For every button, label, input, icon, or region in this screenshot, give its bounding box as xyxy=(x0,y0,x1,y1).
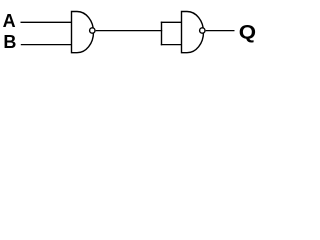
nand gate U2 output bubble xyxy=(200,28,205,33)
svg-text:Q: Q xyxy=(239,22,256,44)
wire U2 output xyxy=(206,30,235,32)
wire U1 output to splitter xyxy=(96,30,163,32)
wire B input xyxy=(21,44,72,46)
wire splitter top branch xyxy=(161,21,182,23)
svg-text:B: B xyxy=(3,32,16,52)
wire splitter vertical bar xyxy=(161,22,163,46)
nand gate U1 output bubble xyxy=(90,28,95,33)
nand gate U1 body xyxy=(72,12,94,53)
wire A input xyxy=(21,21,72,23)
svg-text:A: A xyxy=(3,11,16,31)
nand gate U2 body xyxy=(182,12,204,53)
wire splitter bottom branch xyxy=(161,44,182,46)
